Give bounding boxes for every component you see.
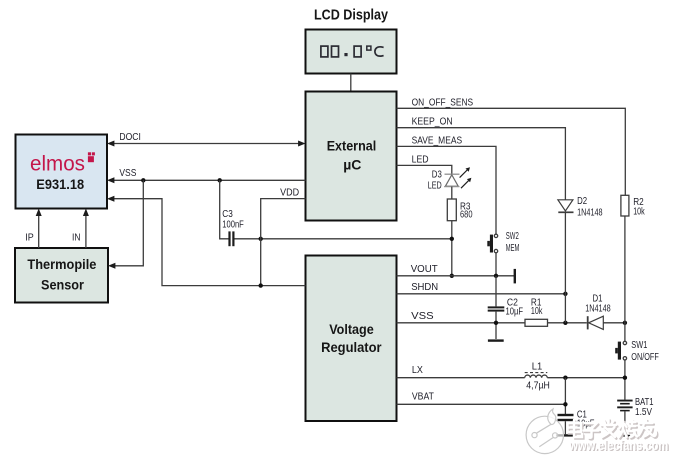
watermark logo circle — [526, 409, 563, 454]
inductor L1 — [525, 373, 548, 378]
wire L1 to battery rail — [547, 377, 625, 379]
wire IP (thermopile to elmos) — [36, 209, 42, 249]
junction VDD/regulator line — [259, 283, 263, 287]
VOUT end bar — [514, 269, 516, 284]
junction VSS/C3 branch — [218, 178, 222, 182]
LCD digits 00.0degC — [321, 46, 384, 57]
svg-text:ON_OFF_SENS: ON_OFF_SENS — [412, 97, 474, 108]
junction R3/VOUT — [450, 274, 454, 278]
svg-text:SHDN: SHDN — [411, 282, 438, 293]
junction VBAT/C1 — [563, 402, 567, 406]
capacitor C3 — [228, 231, 234, 246]
svg-text:100nF: 100nF — [222, 220, 244, 231]
ground C1 — [557, 434, 575, 436]
svg-text:VSS: VSS — [119, 168, 136, 179]
svg-text:LED: LED — [428, 180, 442, 191]
elmos logo — [30, 152, 95, 175]
svg-text:Sensor: Sensor — [41, 276, 84, 292]
svg-text:VDD: VDD — [280, 188, 299, 199]
svg-text:D3: D3 — [432, 170, 442, 181]
block LCD Display — [306, 30, 397, 74]
resistor R3 — [447, 199, 456, 221]
wire LX — [397, 377, 525, 379]
junction VSS/thermopile branch — [141, 178, 145, 182]
ground BAT1 — [620, 435, 630, 437]
svg-text:E931.18: E931.18 — [36, 176, 84, 192]
svg-text:Regulator: Regulator — [321, 339, 382, 355]
svg-text:VBAT: VBAT — [412, 391, 434, 402]
svg-text:1N4148: 1N4148 — [585, 304, 611, 315]
wire C3 to R3 node — [235, 238, 452, 240]
svg-text:680: 680 — [460, 210, 473, 221]
capacitor C1 — [558, 414, 574, 434]
svg-text:SW1: SW1 — [631, 340, 647, 351]
junction D1/right rail — [623, 321, 627, 325]
svg-text:DOCI: DOCI — [119, 132, 140, 143]
junction LX/C1 branch — [563, 376, 567, 380]
wire VSS regulator — [397, 322, 526, 324]
svg-text:1N4148: 1N4148 — [577, 207, 603, 218]
svg-text:L1: L1 — [532, 362, 543, 373]
svg-text:SW2: SW2 — [506, 231, 519, 242]
junction SHDN/D2 rail — [563, 292, 567, 296]
svg-text:Thermopile: Thermopile — [27, 256, 96, 272]
wire C3 branch from VSS — [220, 180, 229, 239]
svg-text:10k: 10k — [633, 207, 645, 218]
svg-text:KEEP_ON: KEEP_ON — [412, 117, 453, 128]
svg-text:10k: 10k — [531, 306, 543, 317]
wire SW1 to battery rail — [624, 360, 626, 400]
svg-text:10µF: 10µF — [506, 307, 524, 318]
wire SAVE_MEAS — [397, 146, 497, 234]
resistor R2 — [621, 195, 629, 216]
svg-text:Voltage: Voltage — [329, 321, 374, 337]
svg-text:LX: LX — [412, 365, 423, 376]
ground C2 — [488, 339, 504, 341]
wire elmos pin3 to regulator — [107, 196, 306, 286]
wire LCD to microcontroller — [350, 74, 352, 92]
block External uC U1 — [306, 92, 397, 221]
wire right rail R2 to SW1 — [624, 216, 626, 341]
switch SW1 ON/OFF — [615, 341, 626, 360]
junction R1/D2 rail — [563, 321, 567, 325]
junction VDD/C3 — [259, 237, 263, 241]
wire VOUT — [397, 275, 515, 277]
wire SW2 to VOUT — [495, 253, 497, 276]
wire VBAT — [397, 403, 566, 405]
wire LED net — [397, 165, 452, 174]
svg-text:VOUT: VOUT — [411, 264, 438, 275]
wire ON_OFF_SENS — [397, 108, 626, 195]
svg-text:SAVE_MEAS: SAVE_MEAS — [412, 135, 463, 146]
junction R3/C3 line — [450, 237, 454, 241]
block elmos E931.18 — [16, 135, 108, 209]
svg-text:LED: LED — [412, 155, 429, 166]
battery BAT1 — [617, 400, 632, 435]
wire IN (thermopile to elmos) — [83, 209, 89, 249]
svg-text:LCD Display: LCD Display — [314, 7, 389, 24]
svg-text:IN: IN — [72, 233, 81, 244]
svg-text:MEM: MEM — [506, 243, 520, 254]
capacitor C2 — [488, 276, 505, 339]
switch SW2 MEM — [487, 234, 497, 253]
wire SHDN — [397, 293, 566, 295]
wire C1 branch — [564, 378, 566, 414]
block Thermopile Sensor — [15, 248, 108, 303]
svg-text:D2: D2 — [577, 196, 587, 207]
resistor R1 — [525, 319, 548, 326]
wire VSS branch to thermopile sensor — [108, 180, 143, 268]
svg-text:www.elecfans.com: www.elecfans.com — [568, 438, 668, 453]
block Voltage Regulator — [306, 256, 397, 422]
svg-text:ON/OFF: ON/OFF — [631, 352, 659, 363]
svg-text:IP: IP — [25, 233, 34, 244]
junction C2/VSS — [494, 321, 498, 325]
svg-text:elmos: elmos — [30, 152, 85, 175]
LED D3 — [444, 167, 471, 188]
svg-text:VSS: VSS — [411, 311, 434, 322]
svg-text:1.5V: 1.5V — [635, 407, 652, 418]
wire R1 to D1 — [548, 322, 587, 324]
wire R3 to VOUT — [451, 221, 453, 276]
junction LX/battery — [623, 376, 627, 380]
wire VDD — [261, 199, 306, 286]
watermark text dianzifashaoyou — [568, 419, 658, 439]
svg-text:µC: µC — [343, 156, 361, 172]
svg-text:4,7µH: 4,7µH — [526, 381, 550, 392]
watermark text www.elecfans.com — [568, 438, 669, 454]
svg-text:C3: C3 — [222, 209, 233, 220]
svg-text:External: External — [327, 138, 377, 154]
diode D1 1N4148 — [588, 316, 625, 329]
diode D2 1N4148 — [558, 200, 574, 323]
wire VSS (elmos to uC) — [107, 177, 306, 183]
junction SW2/VOUT — [494, 274, 498, 278]
wire KEEP_ON — [397, 128, 566, 200]
wire D3 to R3 — [451, 187, 453, 199]
wire DOCI (elmos to uC, double arrow) — [107, 141, 306, 147]
